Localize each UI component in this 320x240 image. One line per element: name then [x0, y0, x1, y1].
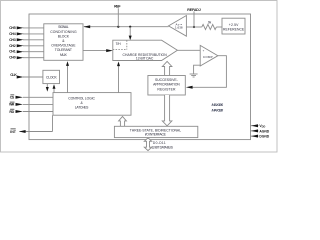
- svg-text:12-BIT DAC: 12-BIT DAC: [136, 56, 154, 60]
- svg-text:CH0: CH0: [9, 56, 16, 60]
- svg-text:WR: WR: [9, 103, 15, 107]
- svg-text:MUX: MUX: [60, 53, 68, 57]
- svg-text:RD: RD: [9, 110, 14, 114]
- svg-text:CLOCK: CLOCK: [46, 75, 58, 79]
- svg-text:12-BIT DATA BUS: 12-BIT DATA BUS: [151, 146, 173, 150]
- svg-text:CONDITIONING: CONDITIONING: [50, 30, 77, 34]
- svg-text:SIGNAL: SIGNAL: [58, 25, 69, 29]
- svg-text:OVERVOLTAGE: OVERVOLTAGE: [51, 44, 76, 48]
- svg-text:LATCHES: LATCHES: [75, 106, 89, 110]
- svg-text:T/H: T/H: [116, 42, 122, 46]
- svg-text:CH3: CH3: [9, 38, 16, 42]
- svg-text:CH1: CH1: [9, 50, 16, 54]
- svg-text:MAX198: MAX198: [212, 108, 224, 113]
- svg-text:CH4: CH4: [9, 32, 16, 36]
- svg-text:+2.5V: +2.5V: [229, 23, 239, 27]
- svg-text:VDD: VDD: [259, 124, 265, 129]
- svg-text:APPROXIMATION: APPROXIMATION: [153, 83, 180, 87]
- svg-text:REGISTER: REGISTER: [157, 87, 176, 91]
- svg-text:MAX196: MAX196: [212, 102, 224, 107]
- svg-text:CS: CS: [10, 96, 15, 100]
- svg-text:CH2: CH2: [9, 44, 16, 48]
- svg-text:BLOCK: BLOCK: [58, 34, 70, 38]
- svg-text:CH5: CH5: [9, 26, 16, 30]
- svg-text:SUCCESSIVE-: SUCCESSIVE-: [155, 78, 178, 82]
- svg-text:DGND: DGND: [259, 135, 269, 139]
- svg-text:AGND: AGND: [259, 129, 269, 133]
- svg-text:REFADJ: REFADJ: [187, 8, 200, 12]
- svg-text:REFERENCE: REFERENCE: [223, 27, 245, 31]
- svg-text:D0-D11: D0-D11: [153, 141, 166, 145]
- svg-text:1.638: 1.638: [175, 26, 183, 30]
- svg-text:REF: REF: [114, 5, 121, 9]
- svg-text:9k: 9k: [208, 20, 212, 24]
- svg-text:CONTROL LOGIC: CONTROL LOGIC: [68, 96, 95, 100]
- svg-text:COMP: COMP: [203, 55, 213, 59]
- svg-text:TOLERANT: TOLERANT: [55, 48, 72, 52]
- svg-text:I/O INTERFACE: I/O INTERFACE: [145, 132, 167, 136]
- svg-text:INT: INT: [10, 130, 16, 134]
- svg-text:CLK: CLK: [10, 73, 17, 77]
